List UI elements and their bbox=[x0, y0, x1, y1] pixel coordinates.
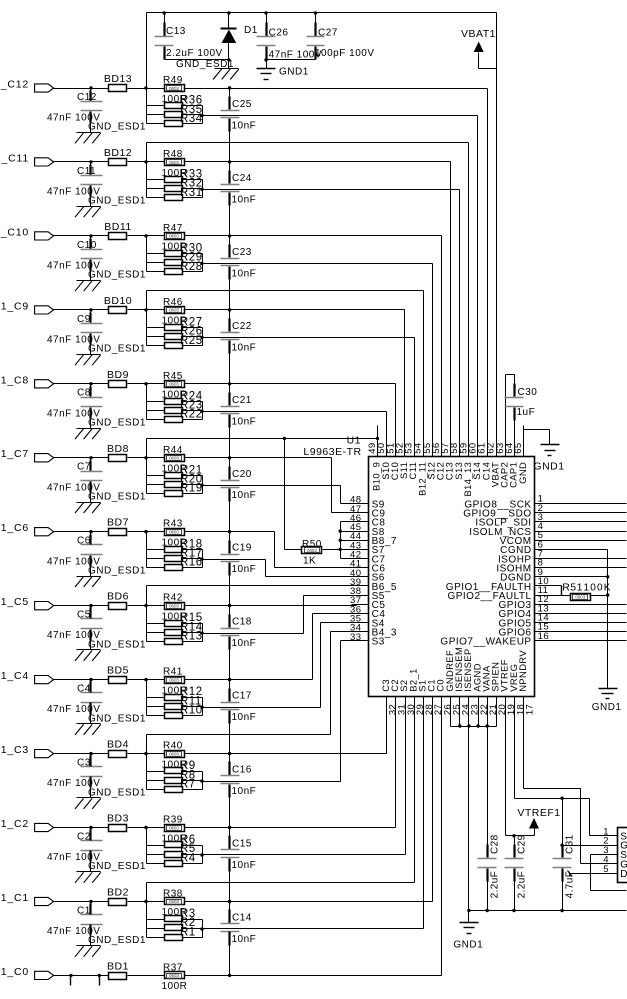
svg-text:GND_ESD1: GND_ESD1 bbox=[88, 270, 146, 281]
svg-text:D1: D1 bbox=[244, 25, 258, 36]
svg-text:R1: R1 bbox=[180, 926, 196, 938]
svg-text:GND_ESD1: GND_ESD1 bbox=[88, 122, 146, 133]
svg-text:R28: R28 bbox=[180, 261, 203, 273]
svg-text:0603: 0603 bbox=[169, 86, 179, 91]
svg-text:B1_C7: B1_C7 bbox=[0, 448, 29, 460]
svg-text:C26: C26 bbox=[269, 28, 289, 39]
svg-text:B1_C0: B1_C0 bbox=[0, 966, 29, 978]
svg-text:0603: 0603 bbox=[307, 548, 317, 553]
svg-text:C9: C9 bbox=[77, 314, 91, 325]
svg-text:10nF: 10nF bbox=[232, 194, 257, 205]
svg-text:B1_C3: B1_C3 bbox=[0, 744, 29, 756]
svg-text:VBAT1: VBAT1 bbox=[461, 28, 496, 40]
svg-text:S3: S3 bbox=[372, 637, 385, 648]
svg-text:GND_ESD1: GND_ESD1 bbox=[88, 565, 146, 576]
svg-text:C14: C14 bbox=[232, 913, 252, 924]
svg-text:C31: C31 bbox=[565, 834, 576, 854]
svg-text:GND_ESD1: GND_ESD1 bbox=[88, 418, 146, 429]
svg-text:R31: R31 bbox=[180, 187, 203, 199]
svg-text:BD5: BD5 bbox=[107, 665, 129, 677]
svg-text:GND_ESD1: GND_ESD1 bbox=[88, 639, 146, 650]
svg-text:C19: C19 bbox=[232, 543, 252, 554]
svg-text:10nF: 10nF bbox=[232, 786, 257, 797]
svg-text:32: 32 bbox=[388, 704, 399, 715]
svg-text:U1: U1 bbox=[347, 435, 361, 447]
svg-text:5: 5 bbox=[603, 864, 609, 875]
svg-text:R4: R4 bbox=[180, 852, 196, 864]
svg-text:0603: 0603 bbox=[169, 456, 179, 461]
svg-text:BD2: BD2 bbox=[107, 887, 129, 899]
svg-text:GND1: GND1 bbox=[592, 702, 622, 713]
svg-text:0603: 0603 bbox=[169, 751, 179, 756]
svg-text:C17: C17 bbox=[232, 691, 252, 702]
svg-text:BD9: BD9 bbox=[107, 369, 129, 381]
svg-text:C2: C2 bbox=[77, 831, 91, 842]
svg-text:B1_C8: B1_C8 bbox=[0, 374, 29, 386]
svg-text:R13: R13 bbox=[180, 631, 203, 643]
svg-text:C18: C18 bbox=[232, 617, 252, 628]
svg-text:C25: C25 bbox=[232, 99, 252, 110]
svg-text:C3: C3 bbox=[380, 679, 391, 692]
svg-text:R34: R34 bbox=[180, 113, 203, 125]
svg-text:B1_C12: B1_C12 bbox=[0, 79, 29, 91]
svg-text:100pF 100V: 100pF 100V bbox=[315, 48, 375, 59]
svg-text:VTREF1: VTREF1 bbox=[517, 807, 560, 819]
svg-text:0603: 0603 bbox=[169, 677, 179, 682]
svg-text:B1_C11: B1_C11 bbox=[0, 152, 29, 164]
svg-text:GND_ESD1: GND_ESD1 bbox=[88, 787, 146, 798]
svg-text:C22: C22 bbox=[232, 321, 252, 332]
svg-text:2.2uF 100V: 2.2uF 100V bbox=[166, 48, 223, 59]
svg-text:C16: C16 bbox=[232, 765, 252, 776]
svg-text:BD8: BD8 bbox=[107, 443, 129, 455]
svg-text:BD7: BD7 bbox=[107, 517, 129, 529]
svg-text:D: D bbox=[620, 869, 627, 880]
svg-text:2.2uF: 2.2uF bbox=[517, 871, 528, 899]
svg-text:GND1: GND1 bbox=[453, 939, 483, 950]
svg-text:0603: 0603 bbox=[575, 595, 585, 600]
svg-text:GND_ESD1: GND_ESD1 bbox=[88, 491, 146, 502]
svg-text:1K: 1K bbox=[303, 556, 316, 567]
svg-text:BD11: BD11 bbox=[104, 221, 132, 233]
svg-text:C23: C23 bbox=[232, 247, 252, 258]
svg-text:10nF: 10nF bbox=[232, 860, 257, 871]
svg-text:BD13: BD13 bbox=[104, 73, 132, 85]
svg-text:0603: 0603 bbox=[169, 899, 179, 904]
svg-text:R16: R16 bbox=[180, 557, 203, 569]
svg-text:16: 16 bbox=[538, 631, 550, 642]
svg-text:C13: C13 bbox=[166, 26, 186, 37]
svg-text:C7: C7 bbox=[77, 462, 91, 473]
svg-text:BD12: BD12 bbox=[104, 147, 132, 159]
svg-text:L9963E-TR: L9963E-TR bbox=[303, 446, 361, 458]
svg-text:R51: R51 bbox=[562, 581, 583, 593]
svg-text:C20: C20 bbox=[232, 469, 252, 480]
svg-text:C10: C10 bbox=[77, 240, 97, 251]
svg-text:R19: R19 bbox=[180, 483, 203, 495]
svg-text:10nF: 10nF bbox=[232, 268, 257, 279]
svg-text:10nF: 10nF bbox=[232, 416, 257, 427]
svg-text:R7: R7 bbox=[180, 779, 196, 791]
svg-text:B1_C6: B1_C6 bbox=[0, 522, 29, 534]
svg-text:B1_C1: B1_C1 bbox=[0, 892, 29, 904]
svg-text:C6: C6 bbox=[77, 536, 91, 547]
svg-text:GND_ESD1: GND_ESD1 bbox=[88, 935, 146, 946]
svg-text:0603: 0603 bbox=[169, 382, 179, 387]
svg-text:BD3: BD3 bbox=[107, 813, 129, 825]
svg-text:0603: 0603 bbox=[169, 825, 179, 830]
svg-text:BD4: BD4 bbox=[107, 739, 129, 751]
svg-text:1uF: 1uF bbox=[517, 407, 536, 418]
svg-text:C5: C5 bbox=[77, 610, 91, 621]
svg-text:C28: C28 bbox=[490, 834, 501, 854]
svg-text:10nF: 10nF bbox=[232, 342, 257, 353]
svg-text:C30: C30 bbox=[518, 387, 538, 398]
svg-text:BD1: BD1 bbox=[107, 960, 129, 972]
svg-text:C21: C21 bbox=[232, 395, 252, 406]
svg-text:GND: GND bbox=[517, 462, 528, 484]
svg-text:C24: C24 bbox=[232, 173, 252, 184]
svg-text:GND_ESD1: GND_ESD1 bbox=[88, 713, 146, 724]
svg-text:0603: 0603 bbox=[169, 973, 179, 978]
svg-text:10nF: 10nF bbox=[232, 638, 257, 649]
svg-text:B1_C2: B1_C2 bbox=[0, 818, 29, 830]
svg-text:BD6: BD6 bbox=[107, 591, 129, 603]
svg-text:10nF: 10nF bbox=[232, 934, 257, 945]
svg-text:C12: C12 bbox=[77, 92, 97, 103]
svg-text:C15: C15 bbox=[232, 839, 252, 850]
svg-text:R25: R25 bbox=[180, 335, 203, 347]
svg-text:GND_ESD1: GND_ESD1 bbox=[88, 861, 146, 872]
svg-text:R10: R10 bbox=[180, 705, 203, 717]
svg-text:0603: 0603 bbox=[169, 160, 179, 165]
svg-text:GND_ESD1: GND_ESD1 bbox=[88, 196, 146, 207]
svg-text:GND_ESD1: GND_ESD1 bbox=[88, 344, 146, 355]
svg-text:GPIO7__WAKEUP: GPIO7__WAKEUP bbox=[440, 637, 531, 648]
svg-text:B1_C9: B1_C9 bbox=[0, 300, 29, 312]
svg-text:BD10: BD10 bbox=[104, 295, 132, 307]
svg-text:0603: 0603 bbox=[169, 603, 179, 608]
svg-text:0603: 0603 bbox=[169, 308, 179, 313]
svg-text:C27: C27 bbox=[318, 28, 338, 39]
svg-text:2.2uF: 2.2uF bbox=[490, 871, 501, 899]
svg-text:10nF: 10nF bbox=[232, 121, 257, 132]
svg-text:R22: R22 bbox=[180, 409, 203, 421]
svg-text:C4: C4 bbox=[77, 684, 91, 695]
svg-text:100R: 100R bbox=[162, 981, 188, 992]
svg-text:GND1: GND1 bbox=[533, 461, 564, 473]
svg-text:10nF: 10nF bbox=[232, 490, 257, 501]
svg-text:B1_C5: B1_C5 bbox=[0, 596, 29, 608]
svg-text:C3: C3 bbox=[77, 758, 91, 769]
svg-text:C29: C29 bbox=[517, 834, 528, 854]
svg-text:10nF: 10nF bbox=[232, 564, 257, 575]
svg-text:B1_C4: B1_C4 bbox=[0, 670, 29, 682]
svg-text:C1: C1 bbox=[77, 905, 91, 916]
svg-text:0603: 0603 bbox=[169, 234, 179, 239]
svg-text:33: 33 bbox=[350, 632, 362, 643]
svg-text:C8: C8 bbox=[77, 388, 91, 399]
svg-text:C11: C11 bbox=[77, 166, 96, 177]
svg-text:10nF: 10nF bbox=[232, 712, 257, 723]
svg-text:GND1: GND1 bbox=[279, 67, 309, 78]
svg-text:0603: 0603 bbox=[169, 530, 179, 535]
svg-text:B1_C10: B1_C10 bbox=[0, 226, 29, 238]
